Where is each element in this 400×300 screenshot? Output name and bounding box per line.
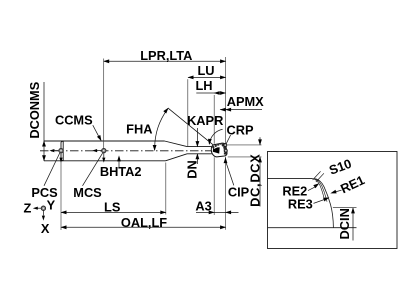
svg-text:LPR,LTA: LPR,LTA: [140, 48, 192, 63]
svg-text:X: X: [41, 221, 50, 236]
svg-text:Y: Y: [47, 198, 56, 213]
svg-text:DC,DCX: DC,DCX: [247, 154, 262, 207]
svg-text:FHA: FHA: [126, 122, 152, 137]
svg-text:KAPR: KAPR: [187, 113, 223, 128]
svg-text:BHTA2: BHTA2: [100, 164, 142, 179]
svg-text:Z: Z: [23, 200, 31, 215]
svg-text:APMX: APMX: [227, 94, 264, 109]
svg-text:LS: LS: [104, 200, 121, 215]
svg-text:CRP: CRP: [226, 122, 253, 137]
svg-text:CCMS: CCMS: [55, 112, 93, 127]
svg-text:MCS: MCS: [73, 185, 102, 200]
svg-text:DCONMS: DCONMS: [27, 81, 42, 138]
svg-text:A3: A3: [195, 198, 211, 213]
svg-text:LU: LU: [197, 63, 214, 78]
svg-text:RE3: RE3: [288, 197, 313, 212]
svg-text:DN: DN: [185, 160, 200, 178]
svg-text:LH: LH: [195, 78, 212, 93]
svg-text:OAL,LF: OAL,LF: [121, 215, 167, 230]
svg-text:DCIN: DCIN: [337, 208, 352, 239]
